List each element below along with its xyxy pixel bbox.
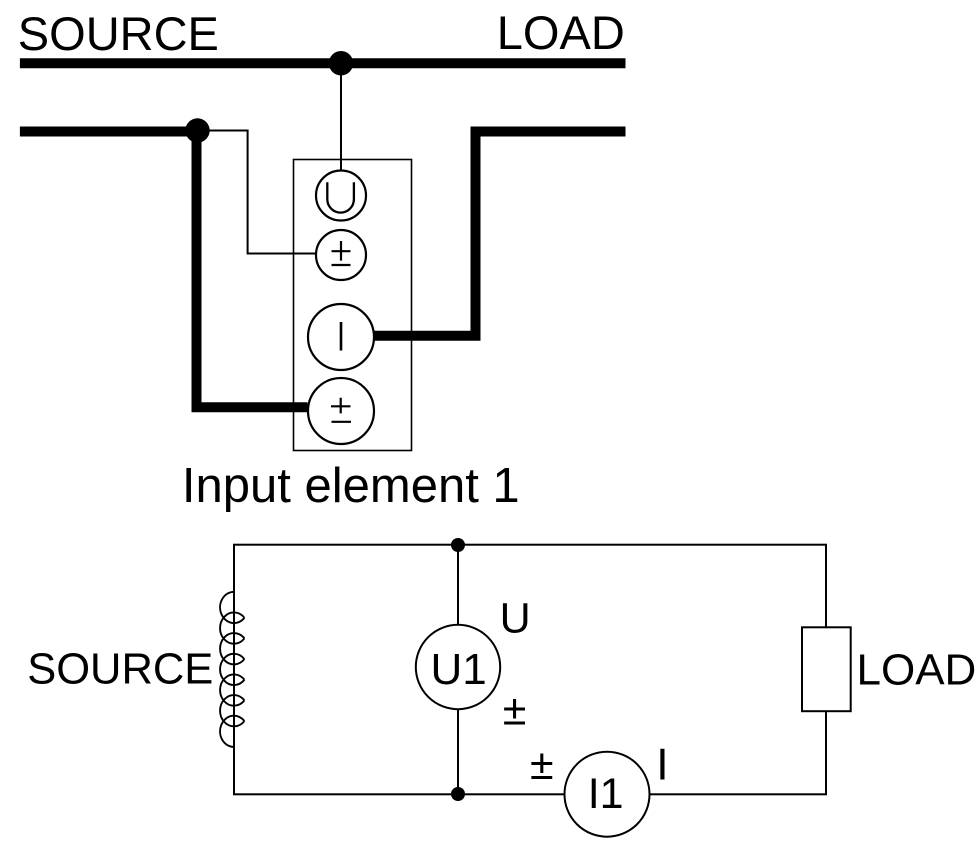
svg-text:Input element 1: Input element 1 xyxy=(182,459,520,513)
terminal U: circle xyxy=(316,171,366,221)
svg-text:±: ± xyxy=(530,741,554,789)
wire: thick from I terminal right, up, and to LOAD (lower supply right) xyxy=(373,132,626,336)
wire: thin drop from junction to U terminal xyxy=(340,63,342,172)
wire: lower circuit loop rectangle xyxy=(234,545,826,795)
terminal +/- (voltage): circle xyxy=(316,230,366,280)
inductor: source winding xyxy=(220,592,244,747)
terminal U: U mark xyxy=(327,182,354,212)
svg-text:±: ± xyxy=(503,687,527,735)
terminal +/- (current): plus-minus mark xyxy=(331,398,351,422)
resistor: LOAD box xyxy=(802,627,851,711)
svg-text:SOURCE: SOURCE xyxy=(27,645,213,693)
wire: voltmeter branch xyxy=(457,545,459,794)
svg-text:LOAD: LOAD xyxy=(857,646,977,695)
terminal +/- (voltage): plus-minus mark xyxy=(332,241,351,265)
ammeter I1: circle xyxy=(565,752,650,837)
node: junction on lower supply line xyxy=(185,118,209,142)
svg-text:SOURCE: SOURCE xyxy=(18,7,219,60)
svg-text:LOAD: LOAD xyxy=(497,6,625,59)
wire: top supply line (thick) xyxy=(20,58,626,68)
svg-text:U1: U1 xyxy=(431,645,487,694)
svg-text:I: I xyxy=(656,741,668,790)
wire: lower supply line left + down + to lower +/- terminal (thick) xyxy=(20,132,308,408)
voltmeter U1: circle xyxy=(416,625,500,709)
terminal box: input element 1 xyxy=(294,160,412,451)
wire: thin from junction to upper +/- terminal xyxy=(198,131,318,254)
node: junction on top supply line xyxy=(329,51,353,75)
svg-text:U: U xyxy=(500,594,531,642)
terminal I: circle xyxy=(308,304,374,370)
terminal +/- (current): circle xyxy=(308,378,374,444)
node: top junction of voltmeter branch xyxy=(451,538,465,552)
svg-text:I1: I1 xyxy=(588,770,624,818)
node: bottom junction of voltmeter branch xyxy=(451,787,465,801)
terminal I: I mark xyxy=(340,322,343,351)
